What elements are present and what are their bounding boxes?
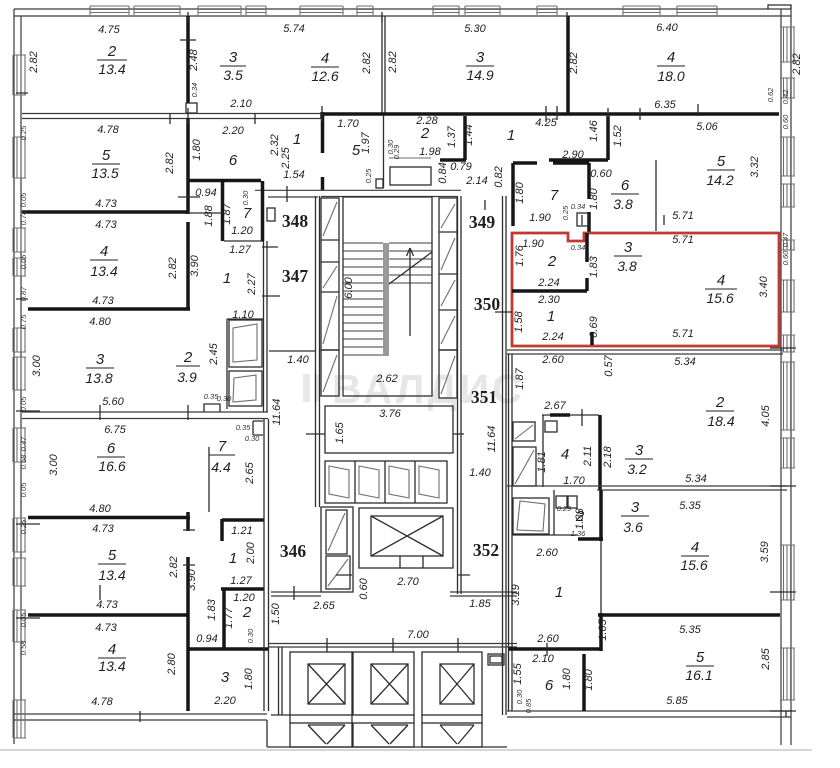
svg-text:0.35: 0.35 xyxy=(236,423,251,432)
svg-text:2.65: 2.65 xyxy=(312,600,335,612)
svg-text:2: 2 xyxy=(547,253,557,270)
svg-text:2.82: 2.82 xyxy=(361,52,373,74)
svg-text:16.6: 16.6 xyxy=(98,458,125,474)
svg-text:0.47: 0.47 xyxy=(781,232,790,247)
svg-text:1.20: 1.20 xyxy=(233,592,255,604)
svg-text:0.29: 0.29 xyxy=(557,504,572,513)
svg-text:2.82: 2.82 xyxy=(167,257,179,279)
svg-text:15.6: 15.6 xyxy=(680,557,707,573)
svg-text:7.00: 7.00 xyxy=(407,629,429,641)
svg-text:3: 3 xyxy=(221,669,230,686)
svg-text:13.8: 13.8 xyxy=(85,370,112,386)
unit350 inner wall horizontal xyxy=(512,278,587,291)
svg-text:1: 1 xyxy=(293,131,301,148)
bath fixtures top-right apt xyxy=(389,157,431,159)
svg-text:3: 3 xyxy=(635,442,644,459)
svg-text:0.94: 0.94 xyxy=(196,633,217,645)
svg-text:6: 6 xyxy=(107,440,116,457)
svg-text:3.90: 3.90 xyxy=(186,568,198,590)
left shaft column xyxy=(321,198,339,350)
wall room5|6 thick xyxy=(186,118,190,214)
svg-text:1.58: 1.58 xyxy=(513,310,525,332)
wall 2.90 room bottom thick xyxy=(549,158,608,162)
staircase arrow xyxy=(407,248,414,336)
wall 2.90 room right thick xyxy=(606,116,610,160)
svg-text:1: 1 xyxy=(547,308,555,325)
svg-text:0.30: 0.30 xyxy=(246,628,255,643)
watermark xyxy=(303,366,525,412)
svg-text:1.83: 1.83 xyxy=(588,255,600,277)
svg-text:1.80: 1.80 xyxy=(243,667,255,689)
svg-text:0.34: 0.34 xyxy=(571,202,586,211)
apt352 closet box xyxy=(513,498,549,534)
svg-text:4.80: 4.80 xyxy=(89,503,111,515)
svg-text:1.70: 1.70 xyxy=(563,475,585,487)
wall under hall 346 xyxy=(271,592,321,596)
wall rooms 4|2 band3 thick vertical xyxy=(186,222,190,309)
svg-text:2.65: 2.65 xyxy=(244,461,256,484)
svg-text:2.82: 2.82 xyxy=(791,53,803,75)
svg-text:0.29: 0.29 xyxy=(392,144,401,159)
closets 351 xyxy=(513,422,535,441)
svg-text:2.10: 2.10 xyxy=(229,98,252,110)
svg-text:2.27: 2.27 xyxy=(246,272,258,295)
svg-text:2.60: 2.60 xyxy=(535,547,558,559)
svg-text:1.37: 1.37 xyxy=(446,125,458,147)
svg-text:4.73: 4.73 xyxy=(96,599,118,611)
bottom apt right boundary xyxy=(264,512,269,711)
door box near red notch xyxy=(577,213,588,226)
svg-text:1.83: 1.83 xyxy=(206,598,218,620)
svg-text:0.25: 0.25 xyxy=(19,519,28,534)
svg-text:7: 7 xyxy=(550,187,559,204)
elevator ticks xyxy=(327,638,458,652)
wall rooms4|3(14.9) thin xyxy=(382,16,385,113)
wall below red double xyxy=(507,350,783,354)
svg-text:0.60: 0.60 xyxy=(358,577,370,599)
hall1 band3 walls xyxy=(227,319,263,409)
svg-text:2.20: 2.20 xyxy=(213,695,236,707)
svg-text:4.78: 4.78 xyxy=(91,696,113,708)
svg-text:18.0: 18.0 xyxy=(657,68,684,84)
svg-text:1.80: 1.80 xyxy=(583,668,595,690)
apt346 rooms6|7 divider xyxy=(208,447,210,512)
svg-text:2: 2 xyxy=(107,43,117,60)
svg-text:5.06: 5.06 xyxy=(696,121,718,133)
svg-text:2.90: 2.90 xyxy=(561,149,584,161)
svg-text:5.34: 5.34 xyxy=(685,473,706,485)
svg-text:1.70: 1.70 xyxy=(337,118,359,130)
svg-text:4: 4 xyxy=(321,50,329,67)
svg-text:2.60: 2.60 xyxy=(536,633,559,645)
red unit 350 outline xyxy=(512,233,779,346)
svg-text:14.9: 14.9 xyxy=(466,67,493,83)
svg-text:3: 3 xyxy=(96,351,105,368)
outer right wall xyxy=(781,9,791,745)
apt346 fixture notch xyxy=(253,421,263,435)
outer bottom wall right segment xyxy=(507,711,791,717)
svg-text:0.30: 0.30 xyxy=(245,434,260,443)
svg-text:2.10: 2.10 xyxy=(531,653,554,665)
svg-text:2.67: 2.67 xyxy=(543,400,566,412)
svg-text:0.25: 0.25 xyxy=(561,205,570,220)
svg-text:11.64: 11.64 xyxy=(271,399,283,426)
corridor 349 right edge double xyxy=(503,196,507,715)
svg-text:1.44: 1.44 xyxy=(463,124,475,145)
vestibule box xyxy=(325,406,453,453)
svg-text:1.38: 1.38 xyxy=(574,507,586,529)
svg-text:4.78: 4.78 xyxy=(97,124,119,136)
svg-text:3.90: 3.90 xyxy=(189,254,201,276)
svg-text:6.75: 6.75 xyxy=(104,424,126,436)
apt345 wavy middle xyxy=(28,613,188,617)
svg-text:1.81: 1.81 xyxy=(536,451,548,472)
room6 bottom wall thick xyxy=(188,179,261,183)
svg-text:3.32: 3.32 xyxy=(749,156,761,177)
svg-text:2.11: 2.11 xyxy=(582,446,594,468)
svg-text:0.30: 0.30 xyxy=(217,394,232,403)
svg-text:2.70: 2.70 xyxy=(396,576,419,588)
svg-text:1.27: 1.27 xyxy=(229,244,251,256)
svg-text:1.65: 1.65 xyxy=(334,421,346,443)
svg-text:349: 349 xyxy=(469,212,496,232)
svg-text:1.10: 1.10 xyxy=(232,309,254,321)
svg-text:1.87: 1.87 xyxy=(514,367,526,389)
corridor 349 left edge double xyxy=(458,196,462,594)
svg-text:2.00: 2.00 xyxy=(245,541,257,564)
svg-text:2.82: 2.82 xyxy=(168,556,180,578)
svg-text:6: 6 xyxy=(229,152,238,169)
unit350 small stub xyxy=(590,332,594,345)
svg-text:5.30: 5.30 xyxy=(464,23,486,35)
room7 right wall xyxy=(587,163,591,233)
svg-text:4.73: 4.73 xyxy=(92,523,114,535)
apt352 bath fixtures xyxy=(556,496,567,508)
svg-text:0.30: 0.30 xyxy=(241,190,250,205)
svg-text:1.80: 1.80 xyxy=(561,667,573,689)
apt352 bath2 walls xyxy=(512,490,578,535)
svg-text:4: 4 xyxy=(100,243,108,260)
svg-text:0.25: 0.25 xyxy=(364,168,373,183)
svg-text:1.55: 1.55 xyxy=(512,662,524,684)
svg-text:6: 6 xyxy=(545,677,554,694)
svg-text:5: 5 xyxy=(102,147,111,164)
svg-text:0.05: 0.05 xyxy=(19,612,28,627)
svg-text:3.8: 3.8 xyxy=(613,196,633,212)
svg-text:1.46: 1.46 xyxy=(588,119,600,141)
svg-text:0.74: 0.74 xyxy=(19,211,28,226)
apt351 fixture xyxy=(545,421,557,432)
svg-text:0.05: 0.05 xyxy=(19,192,28,207)
top wall window hatches xyxy=(90,6,717,15)
staircase outline xyxy=(343,197,432,396)
svg-text:3: 3 xyxy=(624,239,633,256)
apt352 room1|4 wall thick xyxy=(599,490,603,541)
svg-text:2.85: 2.85 xyxy=(760,647,772,670)
apt352 wavy wall xyxy=(598,613,780,617)
room7 left wall xyxy=(511,163,515,226)
svg-text:3.2: 3.2 xyxy=(627,461,647,477)
closet inner shapes xyxy=(233,324,257,402)
svg-text:0.42: 0.42 xyxy=(781,89,790,104)
right shaft column xyxy=(439,198,457,350)
svg-text:4: 4 xyxy=(561,446,569,463)
svg-text:346: 346 xyxy=(280,541,307,561)
svg-text:2: 2 xyxy=(420,125,430,142)
svg-text:13.5: 13.5 xyxy=(91,165,118,181)
svg-text:3: 3 xyxy=(631,499,640,516)
svg-text:2.80: 2.80 xyxy=(166,652,178,675)
svg-text:4.73: 4.73 xyxy=(92,295,114,307)
svg-text:1.87: 1.87 xyxy=(221,202,233,224)
svg-text:3.5: 3.5 xyxy=(223,67,243,83)
svg-text:348: 348 xyxy=(282,211,309,231)
svg-text:5.34: 5.34 xyxy=(674,356,695,368)
svg-text:1.98: 1.98 xyxy=(419,146,441,158)
apt352 hall south wall thick xyxy=(509,647,600,651)
svg-text:5.71: 5.71 xyxy=(672,328,693,340)
svg-text:1.52: 1.52 xyxy=(612,125,624,146)
svg-text:0.84: 0.84 xyxy=(437,162,449,183)
apt352 room6 divider thick xyxy=(582,654,586,711)
svg-text:4: 4 xyxy=(717,272,725,289)
room5 hall left wall thick xyxy=(321,113,325,190)
svg-text:3.40: 3.40 xyxy=(758,275,770,297)
apt346 right boundary double xyxy=(264,419,269,512)
svg-text:5.71: 5.71 xyxy=(672,210,693,222)
svg-text:3: 3 xyxy=(476,49,485,66)
svg-text:0.60: 0.60 xyxy=(590,168,612,180)
svg-text:350: 350 xyxy=(474,294,501,314)
svg-text:14.2: 14.2 xyxy=(706,172,733,188)
svg-text:0.60: 0.60 xyxy=(781,114,790,129)
svg-text:2.45: 2.45 xyxy=(208,342,220,365)
svg-text:1.40: 1.40 xyxy=(287,354,309,366)
elevators bottom row frames xyxy=(290,652,352,715)
svg-text:2.60: 2.60 xyxy=(541,354,564,366)
svg-text:1: 1 xyxy=(555,584,563,601)
svg-text:7: 7 xyxy=(243,205,252,222)
svg-text:4: 4 xyxy=(667,49,675,66)
corridor wall north side xyxy=(255,190,461,197)
svg-text:347: 347 xyxy=(282,266,309,286)
svg-text:2.24: 2.24 xyxy=(537,277,559,289)
svg-text:2.82: 2.82 xyxy=(387,51,399,73)
svg-text:15.6: 15.6 xyxy=(706,290,733,306)
svg-text:0.82: 0.82 xyxy=(493,166,505,187)
svg-text:0.05: 0.05 xyxy=(19,482,28,497)
wavy wall room4/13.4 bottom xyxy=(28,307,190,311)
svg-text:1.80: 1.80 xyxy=(191,138,203,160)
wall rooms2|3 thick xyxy=(186,16,190,103)
wall gallery|apt boundary double xyxy=(264,351,268,412)
svg-text:3: 3 xyxy=(229,49,238,66)
svg-text:0.58: 0.58 xyxy=(19,640,28,655)
apt345 thick vertical xyxy=(186,512,190,711)
svg-text:1.05: 1.05 xyxy=(597,618,609,640)
svg-text:2.18: 2.18 xyxy=(602,445,614,468)
svg-text:0.47: 0.47 xyxy=(19,436,28,451)
svg-text:6: 6 xyxy=(621,177,630,194)
svg-text:3.9: 3.9 xyxy=(177,369,197,385)
bottom core verticals xyxy=(267,715,482,747)
hall348/347 west wall double xyxy=(264,241,268,351)
shaft stack 346 xyxy=(321,507,353,592)
svg-text:0.79: 0.79 xyxy=(450,161,471,173)
svg-text:1.40: 1.40 xyxy=(469,467,491,479)
svg-text:0.62: 0.62 xyxy=(766,87,775,102)
svg-text:4.75: 4.75 xyxy=(98,24,120,36)
svg-text:2.48: 2.48 xyxy=(188,48,200,71)
wall rooms3(14.9)|4(18.0) thick xyxy=(566,16,570,113)
svg-text:4.73: 4.73 xyxy=(95,622,117,634)
small box right of elevators xyxy=(488,654,504,665)
svg-text:2.82: 2.82 xyxy=(28,51,40,73)
svg-text:1.88: 1.88 xyxy=(203,204,215,226)
svg-text:4: 4 xyxy=(108,641,116,658)
door room3 xyxy=(186,103,197,113)
apt351 room4 top wall xyxy=(542,414,599,416)
svg-text:1.90: 1.90 xyxy=(529,212,551,224)
svg-text:3.8: 3.8 xyxy=(617,258,637,274)
unit350 inner wall vertical xyxy=(585,233,589,262)
room7 top wall xyxy=(513,161,589,165)
svg-text:2.14: 2.14 xyxy=(465,175,487,187)
svg-text:1.97: 1.97 xyxy=(360,131,372,153)
top-right corner jog xyxy=(768,5,791,9)
staircase steps xyxy=(343,243,383,355)
svg-text:0.69: 0.69 xyxy=(588,316,600,337)
svg-text:2.24: 2.24 xyxy=(541,331,563,343)
left wall window hatches xyxy=(13,55,26,738)
right wall window hatches xyxy=(780,27,795,700)
svg-text:13.4: 13.4 xyxy=(90,263,117,279)
svg-text:0.25: 0.25 xyxy=(19,125,28,140)
svg-text:3.00: 3.00 xyxy=(31,354,43,376)
elevator X boxes xyxy=(308,664,345,704)
apt351 rooms4|3 wall thick xyxy=(598,415,602,490)
elevator main xyxy=(359,508,453,568)
outer top wall xyxy=(14,9,791,16)
svg-text:16.1: 16.1 xyxy=(685,667,712,683)
svg-text:1.77: 1.77 xyxy=(223,606,235,628)
svg-text:13.4: 13.4 xyxy=(98,61,125,77)
apt351/352 left wall double xyxy=(509,354,513,711)
closets band3 xyxy=(229,320,262,367)
svg-text:2.82: 2.82 xyxy=(568,52,580,74)
wall under hall 352 xyxy=(450,592,517,596)
svg-text:6.00: 6.00 xyxy=(343,276,355,298)
svg-text:6.35: 6.35 xyxy=(654,99,676,111)
svg-text:2: 2 xyxy=(715,394,725,411)
svg-text:4.4: 4.4 xyxy=(211,459,231,475)
svg-text:6.40: 6.40 xyxy=(656,22,678,34)
svg-text:1.20: 1.20 xyxy=(231,225,253,237)
svg-text:4.80: 4.80 xyxy=(89,316,111,328)
staircase cut line xyxy=(389,252,432,284)
wall room7 left thick xyxy=(221,181,225,241)
svg-text:1: 1 xyxy=(229,550,237,567)
svg-text:2: 2 xyxy=(183,349,193,366)
svg-text:1.76: 1.76 xyxy=(514,244,526,266)
svg-text:0.34: 0.34 xyxy=(190,83,199,98)
wall above 352 double xyxy=(507,486,787,490)
svg-text:3.19: 3.19 xyxy=(510,584,522,605)
svg-text:3.76: 3.76 xyxy=(379,408,401,420)
svg-text:13.4: 13.4 xyxy=(98,658,125,674)
svg-text:5: 5 xyxy=(717,153,726,170)
svg-text:1.80: 1.80 xyxy=(514,181,526,203)
staircase stringer xyxy=(383,243,389,356)
svg-text:3.59: 3.59 xyxy=(759,541,771,562)
svg-text:0.85: 0.85 xyxy=(524,698,533,713)
room6 right wall thin xyxy=(655,160,657,231)
long thick wall under top-right rooms xyxy=(322,112,779,116)
bottom envelope faint line xyxy=(0,749,812,751)
svg-text:351: 351 xyxy=(471,387,497,407)
wall above elevator row xyxy=(269,644,517,648)
corridor wall lower left band xyxy=(22,412,268,419)
svg-text:1.80: 1.80 xyxy=(588,187,600,209)
svg-text:3.6: 3.6 xyxy=(623,519,643,535)
svg-text:1.85: 1.85 xyxy=(469,598,491,610)
svg-text:0.05: 0.05 xyxy=(19,396,28,411)
svg-text:0.05: 0.05 xyxy=(19,254,28,269)
outer bottom wall left segment xyxy=(14,714,267,720)
core left edge xyxy=(316,196,320,507)
room2 bottom-left bath walls xyxy=(222,589,226,649)
wavy wall room5/13.5 bottom xyxy=(22,210,188,214)
outer left wall xyxy=(14,9,21,744)
hall348 west wall thick xyxy=(261,181,265,241)
svg-text:0.75: 0.75 xyxy=(19,314,28,329)
svg-text:5.85: 5.85 xyxy=(666,695,688,707)
svg-text:0.58: 0.58 xyxy=(19,454,28,469)
svg-text:4.05: 4.05 xyxy=(760,404,772,426)
svg-text:12.6: 12.6 xyxy=(311,68,338,84)
elevators partial second row xyxy=(290,723,352,747)
svg-text:1: 1 xyxy=(223,270,231,287)
svg-text:7: 7 xyxy=(218,438,227,455)
svg-text:4: 4 xyxy=(691,539,699,556)
apt346 wavy bottom xyxy=(28,516,190,520)
bottom core lower line xyxy=(267,746,507,748)
room7 bottom thin xyxy=(224,240,263,242)
shaft094 bottom thin xyxy=(188,212,222,214)
svg-text:1.54: 1.54 xyxy=(283,169,304,181)
svg-text:4.73: 4.73 xyxy=(95,198,117,210)
stub at 322 xyxy=(320,112,324,118)
svg-text:1.36: 1.36 xyxy=(571,529,586,538)
svg-text:5.74: 5.74 xyxy=(283,23,304,35)
apt351 room4 left wall xyxy=(542,415,544,487)
entry walls top-right apt xyxy=(463,116,467,160)
svg-text:1.27: 1.27 xyxy=(230,575,252,587)
svg-text:13.4: 13.4 xyxy=(98,567,125,583)
svg-text:5: 5 xyxy=(108,547,117,564)
svg-text:0.60: 0.60 xyxy=(781,250,790,265)
svg-text:1.50: 1.50 xyxy=(270,602,282,624)
wall room5|room2 thin xyxy=(383,115,385,188)
gallery divider hall347 xyxy=(269,350,315,352)
corridor wall bottom band xyxy=(22,114,322,119)
svg-text:5.71: 5.71 xyxy=(672,234,693,246)
svg-text:2: 2 xyxy=(242,604,252,621)
svg-text:18.4: 18.4 xyxy=(707,413,734,429)
svg-text:2.62: 2.62 xyxy=(375,373,397,385)
svg-text:0.57: 0.57 xyxy=(603,354,615,376)
svg-text:5: 5 xyxy=(696,649,705,666)
